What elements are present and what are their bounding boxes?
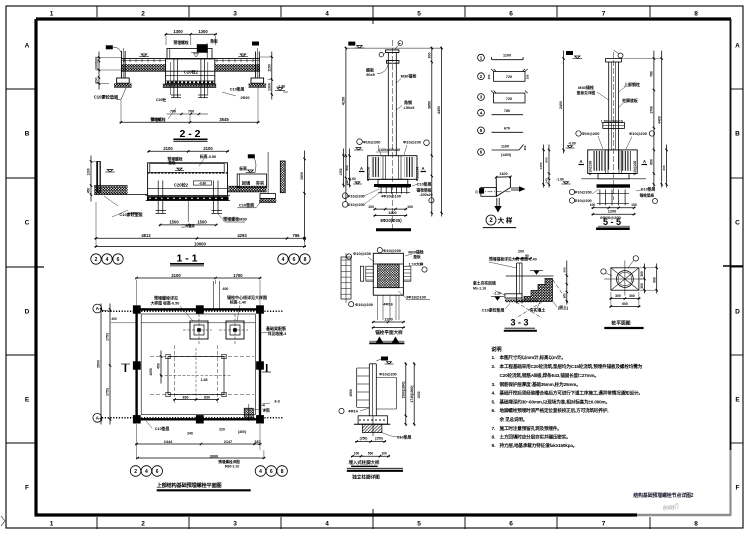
section 2-2 left column [106,45,149,78]
svg-text:本图尺寸均以mm计,标高以m计。: 本图尺寸均以mm计,标高以m计。 [499,354,566,361]
svg-text:2100: 2100 [203,146,213,151]
plan grid line A top [93,304,284,313]
svg-text:1100: 1100 [501,145,509,149]
plan equipment base rect [160,348,232,402]
svg-text:700: 700 [170,110,176,114]
legend item 1 [478,54,523,62]
section 1-1 center leader [187,200,189,222]
section 2-2 left footing label [94,88,126,101]
column bottom rebar note [376,218,411,230]
svg-text:300: 300 [427,53,431,59]
svg-text:L100x100x10: L100x100x10 [378,148,400,152]
svg-text:E: E [735,396,740,403]
svg-text:100: 100 [590,203,596,207]
svg-text:1350: 1350 [539,162,543,169]
svg-text:5.: 5. [492,399,496,405]
svg-text:8: 8 [304,257,307,263]
svg-text:柱脚底板: 柱脚底板 [621,98,638,103]
section 2-2 labels above pedestal [173,39,218,48]
column foot bottom dims [351,437,390,458]
pedestal plan bottom leaders [349,291,430,307]
svg-text:300: 300 [615,294,621,298]
svg-text:4: 4 [282,257,285,263]
elevation 5-5 left dims [539,51,576,188]
column elevation shaft [386,40,399,230]
section 3-3 ground surface line [506,275,554,277]
svg-text:3850: 3850 [427,101,431,109]
elevation 5-5 column shaft [606,52,622,200]
svg-text:150: 150 [526,74,530,79]
column pedestal leader right [403,139,429,155]
svg-text:4812: 4812 [141,233,151,238]
zone numbers top [50,11,699,18]
column bolt cage below [378,186,410,194]
svg-text:1753: 1753 [106,333,110,341]
svg-text:4450: 4450 [437,106,441,114]
column elevation splice labels [376,148,400,152]
svg-text:1000: 1000 [417,391,421,398]
svg-text:3: 3 [233,11,237,18]
column elevation top level flag [348,41,402,57]
svg-text:A: A [96,306,100,312]
section 2-2 bottom dimension 3545 3545 [120,121,260,123]
svg-text:(300): (300) [238,430,246,434]
svg-text:预埋螺栓详图: 预埋螺栓详图 [218,459,240,464]
svg-text:Φ10@200: Φ10@200 [629,131,647,136]
section 3-3 title [504,318,537,331]
section 3-3 left leaders [473,257,537,296]
elevation 5-5 bolt cage [597,190,629,206]
column elevation shaft labels [366,64,416,110]
svg-text:830: 830 [204,395,210,399]
plan bottom dimension 2444 2147 [135,443,261,445]
column foot right bracket [376,373,396,410]
svg-text:Φ10@200: Φ10@200 [366,166,370,181]
section 1-1 bottom dimension 10000 [95,246,307,248]
svg-text:D: D [735,308,740,315]
svg-text:2100: 2100 [171,273,181,278]
section 2-2 beam slab [122,59,261,72]
svg-text:C20砼浇筑,钢筋AⅢ级,焊条E43,锚固长度l=27mm。: C20砼浇筑,钢筋AⅢ级,焊条E43,锚固长度l=27mm。 [500,372,599,379]
svg-text:钢筋保护层厚度:基础35mm,柱为25mm。: 钢筋保护层厚度:基础35mm,柱为25mm。 [500,381,581,388]
plan grid bubbles bottom right [255,466,287,477]
svg-text:400: 400 [223,287,229,291]
svg-text:3545: 3545 [219,117,229,122]
svg-text:C: C [25,219,30,226]
section 2-2 left dimension column [95,52,121,90]
svg-text:1200: 1200 [388,211,396,215]
svg-text:-200x20: -200x20 [419,193,432,197]
plan top dimension 2100 1700 [135,277,261,279]
column pedestal section cut marks [359,166,426,172]
section 3-3 top dims [515,250,532,260]
legend item 2 stirrup [478,69,530,81]
svg-text:700: 700 [188,110,194,114]
svg-text:1900: 1900 [300,172,304,180]
svg-text:5: 5 [417,11,421,18]
svg-text:标高: 标高 [238,166,247,171]
svg-text:10000: 10000 [194,241,206,246]
svg-text:L100x100x10: L100x100x10 [601,119,623,123]
svg-text:240: 240 [187,432,193,436]
svg-text:1:10大样: 1:10大样 [409,262,424,267]
svg-text:-0.60: -0.60 [199,181,206,185]
svg-text:说明: 说明 [491,345,501,353]
plan bottom leaders [146,421,246,469]
svg-text:3.: 3. [492,382,496,388]
notes block [491,345,643,449]
svg-text:结构基础预埋螺栓节点详图2: 结构基础预埋螺栓节点详图2 [633,492,694,499]
svg-text:C20砼2: C20砼2 [184,69,199,76]
section 1-1 leader labels [130,200,247,228]
svg-text:Φ10@200: Φ10@200 [403,139,421,144]
plan corner columns [133,305,264,423]
section 1-1 bolt dimension 1500 1500 [159,224,218,226]
elevation 5-5 pedestal [588,150,638,175]
svg-text:9.: 9. [492,443,496,449]
corner mark bottom-left [1,516,5,526]
svg-text:3Φ18@100: 3Φ18@100 [406,295,426,300]
svg-text:7: 7 [602,521,606,528]
svg-text:预埋螺栓M30: 预埋螺栓M30 [223,216,248,222]
svg-text:A: A [360,166,363,171]
svg-text:8.: 8. [492,434,496,440]
section 2-2 left footing [114,78,132,87]
svg-text:1 - 1: 1 - 1 [176,253,197,265]
pile plan square [604,260,642,295]
svg-text:7: 7 [602,11,606,18]
elevation 5-5 collar leader circles [576,131,655,149]
column foot caption [349,459,380,466]
svg-text:500: 500 [368,452,374,456]
svg-text:C10素砼垫层: C10素砼垫层 [482,308,505,313]
svg-text:Φ10@200: Φ10@200 [416,166,420,181]
svg-text:标高-0.50: 标高-0.50 [199,154,216,159]
svg-text:150: 150 [562,293,566,298]
svg-text:2: 2 [134,469,137,475]
svg-text:本工程基础采用C20砼浇筑,垫层均为C15砼浇筑,预埋件锚板: 本工程基础采用C20砼浇筑,垫层均为C15砼浇筑,预埋件锚板及螺栓均需为 [499,363,643,370]
svg-text:垫板见详图: 垫板见详图 [577,90,596,95]
section 2-2 top dimension 1300 1300 [165,33,218,35]
svg-text:2100: 2100 [163,146,173,151]
svg-text:A: A [735,42,740,49]
column elevation top level line [346,47,442,49]
svg-text:400: 400 [111,317,117,321]
svg-text:M30-1:10: M30-1:10 [225,465,240,469]
svg-text:M≥-1.10: M≥-1.10 [473,286,486,290]
svg-text:垫板: 垫板 [210,39,218,44]
svg-text:150: 150 [487,74,491,79]
svg-text:A: A [421,166,424,171]
svg-text:450: 450 [157,363,161,369]
section 3-3 level marks [491,271,543,301]
section 1-1 top dimension 2100 2100 [147,150,229,152]
section 2-2 title [173,128,207,142]
svg-text:(原土): (原土) [558,305,569,310]
svg-text:1300: 1300 [173,29,183,34]
section 1-1 left wall [94,162,148,195]
pedestal plan caption [369,329,404,344]
svg-text:100: 100 [354,452,360,456]
zone tick marks top [97,6,650,24]
svg-text:4293: 4293 [237,233,247,238]
zone letters left [25,42,30,491]
svg-text:锚栓垫板: 锚栓垫板 [416,188,431,193]
pedestal plan ladder left [341,253,351,303]
svg-text:720: 720 [506,75,512,79]
svg-text:2147: 2147 [224,440,232,444]
zone letters right [735,42,740,491]
section 1-1 right footing [259,194,276,203]
svg-text:4: 4 [259,469,262,475]
pedestal plan outer square [373,253,403,295]
svg-text:C10垫层: C10垫层 [641,187,656,192]
column foot top flag [376,357,393,365]
svg-text:上部结构基础预埋螺栓平面图: 上部结构基础预埋螺栓平面图 [157,481,222,489]
svg-text:720: 720 [506,97,512,101]
zone tick marks right [723,89,744,443]
legend item 4 [478,109,523,116]
pedestal plan side stirrups [360,266,411,281]
plan interior dashed lines [150,345,254,404]
svg-text:200: 200 [662,165,666,170]
plan left dimension lines [97,304,136,425]
svg-text:4: 4 [145,469,148,475]
svg-text:6: 6 [156,469,159,475]
elevation 5-5 leader labels [577,81,640,123]
svg-text:300: 300 [640,271,644,277]
column foot right dims [401,362,421,425]
svg-text:6: 6 [117,257,120,263]
svg-text:回填: 回填 [242,179,251,186]
svg-text:-1.60: -1.60 [348,177,355,181]
svg-text:基础开挖后须经验槽合格后方可进行下道工序施工,遇异常情况通知: 基础开挖后须经验槽合格后方可进行下道工序施工,遇异常情况通知设计。 [499,390,643,397]
legend item 5 [478,127,523,134]
section 2-2 right footing [249,78,267,87]
svg-text:4: 4 [325,521,329,528]
pedestal plan dimension 1200 [372,295,405,329]
pedestal plan right leaders [405,250,427,273]
plan pad leader labels [151,294,267,321]
svg-text:50x5: 50x5 [366,73,374,77]
svg-text:3: 3 [233,521,237,528]
section 1-1 right wall [280,161,285,193]
svg-text:3 - 3: 3 - 3 [510,318,528,328]
svg-text:-1.60: -1.60 [556,178,564,182]
svg-text:4: 4 [325,11,329,18]
svg-text:8: 8 [694,11,698,18]
svg-text:780: 780 [504,109,510,113]
svg-text:1300: 1300 [198,29,208,34]
svg-text:387: 387 [254,440,260,444]
svg-text:1736(1940): 1736(1940) [410,386,414,403]
svg-text:持力层,地基承载力特征值fak≥150kpa。: 持力层,地基承载力特征值fak≥150kpa。 [500,442,578,449]
svg-text:1200: 1200 [384,318,392,322]
svg-text:上部钢柱: 上部钢柱 [624,81,640,87]
svg-text:1350: 1350 [339,168,343,175]
svg-text:2: 2 [141,521,145,528]
svg-text:2400: 2400 [559,101,563,109]
svg-text:1150: 1150 [267,64,271,72]
svg-text:796: 796 [293,233,301,238]
svg-text:基础埋深约30~60mm,以现场为准,相对标高为±0.000: 基础埋深约30~60mm,以现场为准,相对标高为±0.000m。 [499,398,610,405]
svg-text:锚栓平面大样: 锚栓平面大样 [375,329,403,336]
section 1-1 main block [148,163,228,196]
svg-text:4400: 4400 [657,116,661,124]
svg-text:1.: 1. [492,355,496,361]
column foot left wing [357,368,370,407]
svg-text:3-3: 3-3 [274,400,280,404]
column foot stem below [362,416,382,436]
svg-text:独立柱脚详图: 独立柱脚详图 [351,474,380,481]
svg-text:6.: 6. [492,408,496,414]
section 1-1 labels above [167,154,216,166]
section 1-1 grid bubbles left [91,254,123,264]
svg-text:预埋锚栓详见大样 标高-1.40: 预埋锚栓详见大样 标高-1.40 [489,257,537,262]
svg-text:4Φ16: 4Φ16 [383,302,394,307]
svg-text:地脚螺栓预埋时须严格定位复核校正后,方可浇筑砼养护,: 地脚螺栓预埋时须严格定位复核校正后,方可浇筑砼养护, [500,407,609,414]
svg-text:6: 6 [509,521,513,528]
section 2-2 bolt leader labels [150,87,249,123]
svg-text:2 - 2: 2 - 2 [179,128,200,140]
svg-text:4: 4 [106,257,109,263]
elevation 5-5 bottom leaders [569,187,657,204]
elevation 5-5 bottom dims [590,203,637,220]
column foot left leader [339,389,369,413]
svg-text:100: 100 [368,205,374,209]
section 1-1 right wall label [237,199,263,208]
section 3-3 wall stem [517,263,522,303]
svg-text:5: 5 [417,521,421,528]
svg-text:1500: 1500 [349,389,353,397]
svg-text:20: 20 [475,190,479,194]
svg-text:A: A [96,416,100,422]
svg-text:1.48: 1.48 [201,378,208,382]
section 3-3 right dim [566,261,568,305]
svg-text:100: 100 [407,205,413,209]
svg-text:素土夯实回填: 素土夯实回填 [473,281,496,286]
section 1-1 base plate [146,196,231,201]
section 3-3 bottom leaders [482,301,569,312]
plan right small detail [244,404,270,422]
svg-text:M30锚栓: M30锚栓 [401,73,417,79]
svg-text:-1.90: -1.90 [277,85,285,89]
svg-text:A: A [25,42,30,49]
svg-text:2: 2 [141,11,145,18]
svg-text:300: 300 [562,267,566,272]
svg-text:1760: 1760 [650,106,654,114]
svg-text:锚栓垫板: 锚栓垫板 [640,193,655,198]
section 1-1 left dims [87,156,97,202]
column bottom dims [368,205,413,217]
svg-text:1050: 1050 [149,368,153,376]
svg-text:Φ16@200: Φ16@200 [355,302,373,307]
svg-text:670: 670 [504,127,510,131]
svg-text:夯实: 夯实 [255,179,264,186]
section 1-1 anchor bolts [156,181,223,214]
svg-text:2.: 2. [492,364,496,370]
svg-text:7.: 7. [492,426,496,432]
column foot bottom leader [382,433,411,440]
svg-text:4.: 4. [492,391,496,397]
svg-text:300: 300 [629,294,635,298]
svg-text:详图: 详图 [262,408,270,413]
zone numbers bottom [50,521,699,528]
svg-text:(250): (250) [375,437,383,441]
pile plan bottom dims [609,292,640,308]
svg-text:大样图 标高-0.50: 大样图 标高-0.50 [151,301,180,306]
column foot heavy rule [347,468,403,471]
svg-text:Φ10@200: Φ10@200 [582,131,600,136]
section 1-1 bottom dimension 4812 4293 796 [95,237,307,239]
svg-text:1300: 1300 [267,83,271,91]
column cage leaders [342,182,434,208]
plan interior dims 830 830 [149,351,219,401]
legend item 6 bent bar [478,145,527,157]
svg-text:D: D [25,308,30,315]
plan caption [157,481,251,490]
svg-text:2444: 2444 [164,440,173,444]
svg-text:详见结施-3: 详见结施-3 [268,331,287,336]
svg-text:900: 900 [345,165,349,171]
svg-text:3500: 3500 [97,360,101,368]
svg-text:1500(1800): 1500(1800) [401,382,405,399]
svg-text:C20砼: C20砼 [156,97,167,102]
section 2-2 right dimension column [260,52,273,100]
svg-text:C: C [735,219,740,226]
svg-text:B: B [25,130,30,137]
legend caption [483,215,516,228]
svg-text:余 见总说明。: 余 见总说明。 [499,416,528,423]
svg-text:(1400): (1400) [501,153,511,157]
svg-text:桩平面图: 桩平面图 [611,320,630,327]
pile plan right dims [640,264,658,294]
plan section cut marks [121,364,271,372]
svg-text:4Φ14: 4Φ14 [348,410,358,414]
svg-text:4Φ20@100: 4Φ20@100 [381,194,401,199]
svg-text:施工时注意预留孔洞及预埋件。: 施工时注意预留孔洞及预埋件。 [499,425,562,432]
svg-text:850: 850 [650,159,654,165]
svg-text:140: 140 [545,178,549,183]
elevation 5-5 base slab [581,174,646,188]
svg-text:C10垫层: C10垫层 [230,87,245,92]
plan grid line A bottom [93,413,284,422]
svg-text:8: 8 [281,469,284,475]
svg-text:基础梁配筋: 基础梁配筋 [265,325,286,331]
svg-text:(250): (250) [360,437,368,441]
svg-text:垫板: 垫板 [413,254,421,259]
svg-text:C10垫层: C10垫层 [155,426,170,431]
column foot wall [369,364,376,416]
svg-text:8Φ20(Φ25): 8Φ20(Φ25) [380,218,402,223]
legend anchor plate detail [475,172,526,213]
svg-text:F: F [25,484,29,491]
svg-text:200: 200 [95,78,99,84]
svg-text:Φ10@200: Φ10@200 [347,203,364,207]
elevation 5-5 top flag [566,50,623,59]
svg-text:Φ10@200: Φ10@200 [379,373,396,377]
column pedestal left small dims [339,149,362,188]
svg-text:Φ10@200: Φ10@200 [353,251,371,256]
section 1-1 grid bubbles right [278,254,310,264]
column base slab [374,179,411,187]
svg-text:6: 6 [509,11,513,18]
svg-text:100: 100 [631,203,637,207]
svg-text:大 样: 大 样 [498,216,513,225]
svg-text:缀板: 缀板 [366,67,375,73]
column elevation right dims [427,47,442,217]
svg-text:3545: 3545 [151,117,161,122]
